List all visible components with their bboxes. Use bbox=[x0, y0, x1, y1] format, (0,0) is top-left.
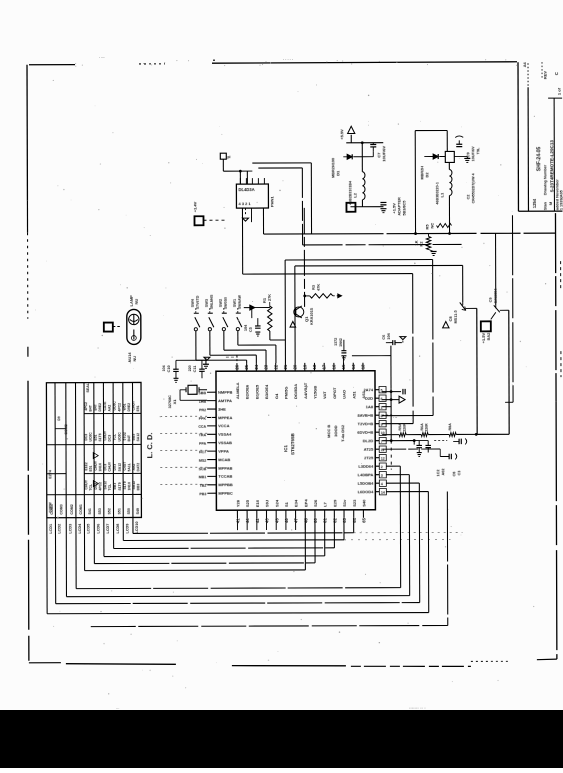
svg-text:pl: pl bbox=[227, 155, 230, 159]
svg-text:MPPEA: MPPEA bbox=[218, 415, 232, 420]
svg-text:ALMELA: ALMELA bbox=[235, 382, 240, 399]
svg-text:DAT2: DAT2 bbox=[136, 463, 140, 472]
svg-text:220R: 220R bbox=[403, 423, 407, 432]
svg-text:B3/OE4: B3/OE4 bbox=[264, 384, 269, 399]
svg-text:EP4: EP4 bbox=[303, 499, 308, 507]
svg-text:10UF/6V: 10UF/6V bbox=[381, 146, 386, 162]
svg-text:AT25: AT25 bbox=[364, 447, 374, 452]
svg-text:14: 14 bbox=[351, 364, 356, 369]
svg-text:BB3: BB3 bbox=[132, 434, 136, 441]
svg-text:REV: REV bbox=[543, 71, 548, 80]
svg-text:1N42: 1N42 bbox=[339, 338, 343, 347]
svg-text:S25: S25 bbox=[245, 499, 250, 507]
svg-text:UC6C: UC6C bbox=[113, 401, 117, 411]
svg-text:L4DBPA: L4DBPA bbox=[358, 472, 374, 477]
svg-text:SNLM4S: SNLM4S bbox=[210, 294, 214, 309]
svg-text:...: ... bbox=[116, 705, 119, 710]
svg-text:MPPBB: MPPBB bbox=[218, 482, 233, 487]
svg-text:3OOD: 3OOD bbox=[333, 425, 338, 436]
svg-text:Drawing Number: Drawing Number bbox=[543, 164, 547, 195]
svg-text:D1: D1 bbox=[335, 170, 340, 176]
svg-text:5A1L: 5A1L bbox=[127, 463, 131, 471]
svg-text:6DVD+B: 6DVD+B bbox=[357, 430, 373, 435]
svg-text:VSSA4: VSSA4 bbox=[218, 432, 232, 437]
svg-text:OPGT: OPGT bbox=[332, 387, 337, 399]
svg-text:S1T6: S1T6 bbox=[98, 433, 102, 441]
svg-text:S/N3904: S/N3904 bbox=[494, 288, 498, 304]
svg-text:DG/5DA: DG/5DA bbox=[293, 384, 298, 399]
svg-text:NMPPB: NMPPB bbox=[218, 390, 233, 395]
svg-text:VAT: VAT bbox=[322, 391, 327, 399]
svg-text:104: 104 bbox=[244, 324, 248, 331]
svg-text:E29: E29 bbox=[332, 499, 337, 507]
svg-text:HC7: HC7 bbox=[199, 450, 206, 454]
svg-text:-NU14: -NU14 bbox=[128, 352, 132, 364]
svg-text:L6DOD4: L6DOD4 bbox=[358, 489, 375, 494]
svg-text:A4/V5AT: A4/V5AT bbox=[303, 382, 308, 399]
svg-text:17: 17 bbox=[322, 364, 327, 369]
svg-text:E51: E51 bbox=[94, 434, 98, 440]
svg-text:CHUY: CHUY bbox=[103, 430, 107, 440]
svg-text:SA12: SA12 bbox=[103, 481, 107, 490]
svg-text:22: 22 bbox=[273, 364, 278, 369]
svg-text:COM1: COM1 bbox=[79, 504, 83, 514]
svg-text:LCD8: LCD8 bbox=[116, 524, 120, 534]
svg-text:+1.5V: +1.5V bbox=[391, 203, 396, 214]
svg-text:LCD9: LCD9 bbox=[125, 524, 129, 534]
svg-text:LCD6: LCD6 bbox=[96, 524, 100, 534]
svg-text:LCD10: LCD10 bbox=[135, 521, 139, 533]
svg-text:8: 8 bbox=[381, 414, 383, 418]
svg-text:S1T6: S1T6 bbox=[123, 481, 127, 489]
svg-text:G4: G4 bbox=[274, 393, 279, 399]
svg-text:1A8: 1A8 bbox=[366, 404, 374, 409]
svg-text:61: 61 bbox=[323, 518, 328, 523]
svg-text:LCD4: LCD4 bbox=[78, 523, 82, 534]
svg-text:S53: S53 bbox=[98, 508, 102, 514]
svg-text:SA12: SA12 bbox=[136, 433, 140, 442]
svg-text:SW0S0: SW0S0 bbox=[224, 297, 228, 309]
svg-text:B1/OE5: B1/OE5 bbox=[254, 384, 259, 399]
svg-text:NU: NU bbox=[133, 356, 137, 362]
svg-text:S41: S41 bbox=[88, 508, 92, 514]
svg-text:BB3: BB3 bbox=[113, 483, 117, 490]
svg-text:10UF/6V: 10UF/6V bbox=[471, 146, 475, 161]
svg-text:S24: S24 bbox=[274, 499, 279, 507]
svg-text:14: 14 bbox=[381, 490, 385, 494]
svg-text:AA2: AA2 bbox=[108, 405, 112, 412]
svg-text:S1v: S1v bbox=[342, 499, 347, 507]
svg-text:DC3: DC3 bbox=[108, 435, 112, 442]
svg-text:62: 62 bbox=[332, 517, 337, 522]
svg-text:UC6C: UC6C bbox=[117, 432, 121, 442]
svg-text:D2D: D2D bbox=[365, 396, 373, 401]
svg-text:Stan: Stan bbox=[543, 201, 547, 210]
svg-text:23: 23 bbox=[264, 364, 269, 369]
svg-text:4PC2: 4PC2 bbox=[98, 482, 102, 491]
svg-text:CHUY: CHUY bbox=[94, 460, 98, 470]
svg-text:LCD3: LCD3 bbox=[68, 524, 72, 534]
svg-text:TCCAB: TCCAB bbox=[218, 474, 232, 479]
svg-text:CR45532D7(UW 4: CR45532D7(UW 4 bbox=[471, 173, 475, 203]
svg-text:LCD7: LCD7 bbox=[106, 524, 110, 534]
svg-text:TB2: TB2 bbox=[200, 484, 207, 488]
svg-text:64: 64 bbox=[352, 517, 357, 522]
svg-text:C: C bbox=[554, 72, 559, 75]
svg-text:COM3: COM3 bbox=[60, 504, 64, 514]
svg-text:L7: L7 bbox=[323, 501, 328, 506]
svg-text:LCD5: LCD5 bbox=[87, 524, 91, 534]
svg-text:BA2: BA2 bbox=[487, 333, 491, 341]
svg-text:9: 9 bbox=[381, 422, 383, 426]
svg-text:C5: C5 bbox=[249, 327, 253, 332]
svg-text:SA12: SA12 bbox=[118, 463, 122, 472]
svg-text:CHUY: CHUY bbox=[108, 461, 112, 471]
svg-text:48: 48 bbox=[303, 518, 308, 523]
svg-text:NC: NC bbox=[430, 223, 435, 229]
svg-text:L1: L1 bbox=[439, 192, 444, 197]
svg-text:CHUY: CHUY bbox=[132, 400, 136, 410]
svg-text:S52: S52 bbox=[107, 508, 111, 514]
svg-text:KRA101S: KRA101S bbox=[310, 307, 314, 325]
svg-text:SCB: SCB bbox=[199, 467, 207, 471]
svg-text:1372: 1372 bbox=[334, 338, 338, 346]
svg-text:5B3/8C5: 5B3/8C5 bbox=[402, 201, 406, 216]
svg-text:DC3: DC3 bbox=[94, 483, 98, 490]
svg-text:ST62T65B: ST62T65B bbox=[290, 432, 295, 455]
svg-text:5TD2: 5TD2 bbox=[123, 432, 127, 440]
svg-text:C2: C2 bbox=[466, 195, 470, 200]
svg-text:. ..: . .. bbox=[393, 415, 397, 419]
svg-text:B4T: B4T bbox=[88, 404, 92, 411]
svg-text:DL2D: DL2D bbox=[363, 438, 374, 443]
svg-text:16: 16 bbox=[331, 364, 336, 369]
svg-text:4 3 2 1: 4 3 2 1 bbox=[238, 201, 251, 206]
svg-text:T2VD+B: T2VD+B bbox=[358, 421, 374, 426]
svg-text:IC1: IC1 bbox=[283, 444, 288, 452]
svg-text:SEAL: SEAL bbox=[86, 382, 90, 392]
svg-text:R3: R3 bbox=[312, 285, 316, 290]
svg-text:MCC B: MCC B bbox=[326, 425, 331, 438]
svg-text:T-4a DS2: T-4a DS2 bbox=[340, 424, 345, 442]
svg-text:19: 19 bbox=[302, 364, 307, 369]
svg-text:X1: X1 bbox=[172, 399, 177, 405]
svg-text:L3DD64: L3DD64 bbox=[358, 464, 374, 469]
svg-text:UC6C: UC6C bbox=[89, 432, 93, 442]
svg-text:E34: E34 bbox=[294, 499, 299, 507]
svg-text:5-23T4REMOTE-L29C13: 5-23T4REMOTE-L29C13 bbox=[549, 140, 554, 193]
svg-text:104: 104 bbox=[387, 332, 391, 339]
svg-text:S1: S1 bbox=[284, 501, 289, 507]
svg-text:63: 63 bbox=[342, 517, 347, 522]
svg-text:Y15GB: Y15GB bbox=[313, 386, 318, 399]
svg-text:S9J: S9J bbox=[264, 500, 269, 507]
svg-text:L5DOB4: L5DOB4 bbox=[358, 481, 375, 486]
svg-text:C8: C8 bbox=[452, 472, 456, 477]
svg-text:SW2: SW2 bbox=[219, 299, 223, 307]
svg-text:BB3: BB3 bbox=[136, 484, 140, 491]
svg-text:25: 25 bbox=[244, 364, 249, 369]
svg-text:VCCA: VCCA bbox=[218, 423, 229, 428]
svg-text:E51: E51 bbox=[136, 405, 140, 411]
svg-text:220: 220 bbox=[188, 365, 192, 371]
svg-text:1N1X: 1N1X bbox=[98, 462, 102, 471]
svg-text:D5E2: D5E2 bbox=[127, 403, 131, 412]
svg-text:. ...: . ... bbox=[99, 54, 105, 59]
svg-text:2A74: 2A74 bbox=[363, 387, 373, 392]
svg-text:7: 7 bbox=[381, 439, 383, 443]
svg-text:SHF-24-05: SHF-24-05 bbox=[536, 147, 542, 172]
svg-text:11: 11 bbox=[381, 448, 385, 452]
svg-text:D9: D9 bbox=[57, 416, 61, 420]
svg-text:1C2: 1C2 bbox=[436, 470, 440, 477]
svg-text:+1.4V: +1.4V bbox=[192, 201, 197, 212]
svg-text:220R: 220R bbox=[425, 423, 429, 432]
svg-text:B2/OE6: B2/OE6 bbox=[245, 384, 250, 399]
svg-text:A51: A51 bbox=[351, 391, 356, 399]
svg-text:15: 15 bbox=[341, 364, 346, 369]
svg-text:C3: C3 bbox=[457, 471, 461, 476]
svg-text:46B2B3101B4: 46B2B3101B4 bbox=[348, 181, 352, 205]
svg-text:SA12: SA12 bbox=[132, 481, 136, 490]
svg-text:COM2: COM2 bbox=[70, 504, 74, 514]
svg-text:CCA: CCA bbox=[198, 425, 206, 429]
svg-text:MCAB: MCAB bbox=[218, 457, 230, 462]
svg-text:SWAAW: SWAAW bbox=[238, 295, 242, 310]
svg-text:D2: D2 bbox=[424, 172, 429, 178]
svg-text:10: 10 bbox=[381, 431, 385, 435]
svg-text:VSSAB: VSSAB bbox=[218, 440, 232, 445]
svg-text:ADAPTER: ADAPTER bbox=[397, 197, 401, 216]
svg-text:W51: W51 bbox=[122, 403, 126, 410]
svg-text:6: 6 bbox=[381, 397, 383, 401]
svg-text:MBR2H100: MBR2H100 bbox=[331, 158, 335, 178]
svg-text:1 of: 1 of bbox=[557, 87, 562, 95]
svg-text:S23: S23 bbox=[352, 499, 357, 507]
svg-text:TRA: TRA bbox=[199, 433, 207, 437]
svg-text:D5E2: D5E2 bbox=[98, 403, 102, 412]
svg-text:1 1939(A05: 1 1939(A05 bbox=[559, 190, 563, 210]
svg-text:65: 65 bbox=[361, 517, 366, 522]
svg-text:C9: C9 bbox=[489, 297, 493, 302]
svg-text:COM2: COM2 bbox=[64, 424, 68, 434]
svg-text:A02: A02 bbox=[441, 469, 445, 476]
svg-text:DC3: DC3 bbox=[103, 464, 107, 471]
svg-text:SW4: SW4 bbox=[191, 298, 195, 307]
svg-text:S40: S40 bbox=[361, 499, 366, 507]
svg-text:MPPAB: MPPAB bbox=[218, 465, 232, 470]
svg-text:NU: NU bbox=[134, 299, 139, 305]
svg-text:E51: E51 bbox=[89, 465, 93, 471]
svg-text:1: 1 bbox=[381, 405, 383, 409]
svg-text:MS2: MS2 bbox=[199, 459, 206, 463]
svg-text:L. C. D.: L. C. D. bbox=[145, 433, 154, 459]
svg-text:46B3B3220-1: 46B3B3220-1 bbox=[435, 182, 439, 204]
svg-text:5: 5 bbox=[381, 388, 383, 392]
svg-text:+1.5V: +1.5V bbox=[481, 332, 486, 343]
svg-text:+5.5V: +5.5V bbox=[339, 129, 344, 140]
svg-text:TCL: TCL bbox=[113, 434, 117, 441]
svg-text:LCD1: LCD1 bbox=[49, 524, 53, 534]
svg-text:4: 4 bbox=[381, 482, 383, 486]
svg-text:MBR2H: MBR2H bbox=[420, 166, 424, 180]
svg-text:E1E2: E1E2 bbox=[84, 462, 88, 470]
svg-text:45: 45 bbox=[274, 518, 279, 523]
svg-text:S7V6TD: S7V6TD bbox=[196, 295, 200, 309]
svg-text:R8A: R8A bbox=[448, 423, 452, 431]
svg-text:B4T: B4T bbox=[93, 403, 97, 410]
svg-text:C8: C8 bbox=[448, 316, 453, 322]
svg-text:S26: S26 bbox=[313, 499, 318, 507]
svg-text:L2: L2 bbox=[352, 192, 357, 197]
svg-text:26: 26 bbox=[234, 364, 239, 369]
svg-text:32768C: 32768C bbox=[168, 395, 172, 409]
svg-text:DC3: DC3 bbox=[84, 434, 88, 441]
svg-text:12: 12 bbox=[381, 456, 385, 460]
svg-text:S50: S50 bbox=[127, 508, 131, 514]
svg-text:S49: S49 bbox=[136, 508, 140, 514]
svg-text:C4ST: C4ST bbox=[123, 461, 127, 471]
svg-text:....... .. .: ....... .. . bbox=[409, 705, 426, 711]
svg-text:2T25: 2T25 bbox=[364, 455, 374, 460]
svg-text:AMTPA: AMTPA bbox=[218, 398, 232, 403]
svg-text:TCL: TCL bbox=[89, 484, 93, 491]
svg-text:1K: 1K bbox=[414, 240, 419, 245]
svg-text:MPPBC: MPPBC bbox=[218, 491, 233, 496]
svg-text:44: 44 bbox=[245, 518, 250, 523]
svg-text:46: 46 bbox=[284, 518, 289, 523]
svg-text:27K: 27K bbox=[268, 294, 272, 301]
svg-text:C9: C9 bbox=[465, 152, 470, 158]
svg-text:R2: R2 bbox=[419, 241, 424, 247]
svg-text:PM/5G: PM/5G bbox=[283, 387, 288, 399]
svg-text:PR2: PR2 bbox=[199, 408, 206, 412]
svg-text:S51: S51 bbox=[117, 508, 121, 514]
svg-text:20: 20 bbox=[293, 364, 298, 369]
svg-text:1HB: 1HB bbox=[199, 400, 207, 404]
svg-text:PPA: PPA bbox=[199, 442, 207, 446]
svg-text:24: 24 bbox=[254, 364, 259, 369]
svg-text:1254: 1254 bbox=[532, 198, 537, 208]
svg-text:LCD2: LCD2 bbox=[58, 524, 62, 534]
svg-text:SW3: SW3 bbox=[205, 299, 209, 307]
svg-text:VPPA: VPPA bbox=[218, 449, 229, 454]
svg-text:Y28: Y28 bbox=[235, 499, 240, 507]
svg-text:4PC2: 4PC2 bbox=[84, 402, 88, 411]
svg-text:SW1: SW1 bbox=[233, 299, 237, 307]
svg-text:41: 41 bbox=[235, 518, 240, 523]
svg-text:104: 104 bbox=[162, 365, 166, 371]
svg-text:C6: C6 bbox=[382, 335, 386, 340]
svg-text:R6A: R6A bbox=[420, 423, 424, 431]
svg-text:1N1X: 1N1X bbox=[127, 481, 131, 490]
svg-text:47: 47 bbox=[294, 518, 299, 523]
svg-text:R1: R1 bbox=[262, 297, 267, 303]
svg-text:TCL: TCL bbox=[108, 484, 112, 491]
svg-text:3HE: 3HE bbox=[218, 407, 226, 412]
svg-text:3: 3 bbox=[381, 473, 383, 477]
svg-text:PB3: PB3 bbox=[199, 492, 206, 496]
svg-text:MS11-5: MS11-5 bbox=[454, 310, 458, 323]
svg-text:MB1: MB1 bbox=[199, 475, 207, 479]
svg-text:42: 42 bbox=[255, 518, 260, 523]
svg-text:SBB: SBB bbox=[198, 391, 206, 395]
svg-text:. . . . .: . . . . . bbox=[283, 56, 293, 61]
svg-text:UAO: UAO bbox=[342, 390, 347, 399]
svg-text:2: 2 bbox=[381, 465, 383, 469]
svg-text:R5A: R5A bbox=[398, 423, 402, 431]
svg-text:S1T6: S1T6 bbox=[118, 482, 122, 490]
svg-text:C10: C10 bbox=[167, 365, 171, 372]
svg-text:DX3: DX3 bbox=[113, 464, 117, 471]
svg-text:21: 21 bbox=[283, 364, 288, 369]
svg-text:E2T4: E2T4 bbox=[48, 470, 52, 479]
svg-text:B4T: B4T bbox=[127, 434, 131, 441]
svg-text:T9L: T9L bbox=[476, 147, 480, 154]
svg-text:C11: C11 bbox=[193, 365, 197, 372]
svg-text:Q1: Q1 bbox=[304, 316, 309, 322]
svg-text:4PC2: 4PC2 bbox=[117, 403, 121, 412]
svg-text:DL4D3A: DL4D3A bbox=[238, 187, 254, 192]
svg-text:13: 13 bbox=[360, 364, 365, 369]
svg-text:C2PW: C2PW bbox=[48, 502, 52, 513]
svg-text:47K: 47K bbox=[317, 284, 321, 291]
svg-text:43: 43 bbox=[265, 518, 270, 523]
svg-text:E10: E10 bbox=[255, 499, 260, 507]
svg-text:CATE: CATE bbox=[103, 401, 107, 411]
svg-text:CHUY: CHUY bbox=[84, 479, 88, 489]
svg-text:PPK: PPK bbox=[199, 416, 207, 420]
svg-text:AA2: AA2 bbox=[132, 464, 136, 471]
svg-text:8AVB+B: 8AVB+B bbox=[357, 413, 373, 418]
svg-text:PHN1: PHN1 bbox=[269, 196, 274, 207]
svg-text:18: 18 bbox=[312, 364, 317, 369]
svg-text:60: 60 bbox=[313, 518, 318, 523]
